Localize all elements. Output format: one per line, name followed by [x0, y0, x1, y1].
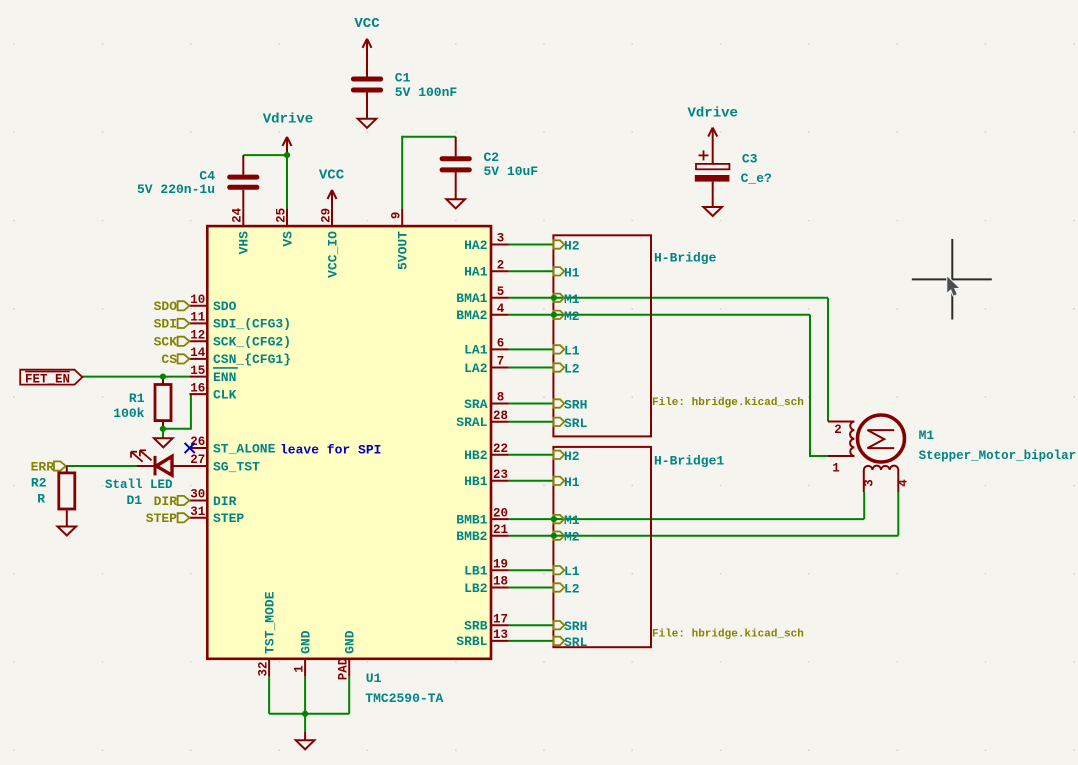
svg-text:20: 20	[493, 506, 508, 520]
svg-text:DIR: DIR	[154, 494, 178, 509]
svg-text:100k: 100k	[113, 406, 144, 421]
svg-text:C3: C3	[742, 151, 758, 166]
svg-text:SRA: SRA	[464, 397, 488, 412]
svg-text:SG_TST: SG_TST	[213, 459, 260, 474]
svg-text:5V 100nF: 5V 100nF	[395, 85, 458, 100]
svg-text:Stepper_Motor_bipolar: Stepper_Motor_bipolar	[919, 449, 1077, 463]
svg-text:3: 3	[863, 479, 877, 487]
svg-text:GND: GND	[343, 630, 358, 654]
svg-text:9: 9	[390, 212, 404, 220]
svg-text:VS: VS	[280, 231, 295, 247]
svg-text:M1: M1	[564, 513, 580, 528]
svg-text:5: 5	[497, 285, 505, 299]
svg-text:leave for SPI: leave for SPI	[280, 442, 381, 457]
svg-text:H2: H2	[564, 239, 580, 254]
svg-text:File: hbridge.kicad_sch: File: hbridge.kicad_sch	[652, 397, 804, 409]
svg-text:4: 4	[497, 302, 505, 316]
svg-text:HB2: HB2	[464, 448, 488, 463]
svg-text:18: 18	[493, 575, 508, 589]
svg-text:LB2: LB2	[464, 581, 488, 596]
svg-text:SRL: SRL	[564, 635, 588, 650]
svg-text:21: 21	[493, 523, 508, 537]
svg-text:ENN: ENN	[213, 370, 236, 385]
svg-text:7: 7	[497, 355, 505, 369]
svg-text:LB1: LB1	[464, 564, 488, 579]
svg-text:SDO: SDO	[213, 299, 237, 314]
svg-text:4: 4	[897, 479, 911, 487]
svg-text:5V 10uF: 5V 10uF	[484, 164, 539, 179]
svg-text:VCC_IO: VCC_IO	[325, 231, 340, 278]
svg-text:Stall LED: Stall LED	[105, 478, 173, 492]
svg-text:SRB: SRB	[464, 619, 488, 634]
svg-text:CS: CS	[161, 352, 177, 367]
svg-text:VCC: VCC	[319, 168, 345, 184]
svg-text:SRL: SRL	[564, 416, 588, 431]
svg-text:13: 13	[493, 628, 508, 642]
svg-text:ST_ALONE: ST_ALONE	[213, 441, 276, 456]
svg-text:23: 23	[493, 468, 508, 482]
svg-text:14: 14	[190, 346, 206, 360]
svg-text:HA2: HA2	[464, 238, 488, 253]
svg-text:SCK: SCK	[154, 335, 178, 350]
svg-text:TMC2590-TA: TMC2590-TA	[365, 691, 443, 706]
svg-text:H1: H1	[564, 475, 580, 490]
svg-text:L2: L2	[564, 582, 580, 597]
svg-text:SRH: SRH	[564, 398, 587, 413]
svg-text:BMA2: BMA2	[456, 308, 487, 323]
svg-text:BMA1: BMA1	[456, 291, 487, 306]
svg-text:28: 28	[493, 409, 508, 423]
svg-text:CSN_{CFG1}: CSN_{CFG1}	[213, 352, 291, 367]
svg-text:SRAL: SRAL	[456, 415, 487, 430]
svg-text:L1: L1	[564, 564, 580, 579]
svg-text:6: 6	[497, 337, 505, 351]
svg-text:Vdrive: Vdrive	[687, 105, 737, 121]
svg-text:2: 2	[497, 259, 505, 273]
svg-text:LA2: LA2	[464, 361, 488, 376]
svg-text:PAD: PAD	[336, 657, 350, 680]
svg-text:BMB1: BMB1	[456, 512, 487, 527]
svg-text:STEP: STEP	[213, 511, 244, 526]
svg-text:SRH: SRH	[564, 619, 587, 634]
svg-text:26: 26	[190, 435, 205, 449]
svg-text:22: 22	[493, 442, 508, 456]
svg-text:H1: H1	[564, 265, 580, 280]
svg-text:1: 1	[292, 665, 306, 673]
svg-text:5VOUT: 5VOUT	[396, 231, 411, 270]
svg-text:24: 24	[231, 207, 245, 223]
svg-text:M2: M2	[564, 309, 580, 324]
svg-text:U1: U1	[366, 671, 382, 686]
svg-text:SRBL: SRBL	[456, 634, 487, 649]
svg-text:H-Bridge1: H-Bridge1	[654, 453, 724, 468]
svg-text:SDO: SDO	[154, 299, 178, 314]
svg-text:H-Bridge: H-Bridge	[654, 251, 717, 266]
svg-text:5V 220n-1u: 5V 220n-1u	[137, 182, 215, 197]
svg-text:M1: M1	[919, 428, 935, 443]
svg-text:VHS: VHS	[237, 231, 252, 255]
svg-text:VCC: VCC	[354, 16, 380, 32]
svg-text:ERR: ERR	[31, 459, 55, 474]
svg-text:TST_MODE: TST_MODE	[263, 591, 278, 654]
svg-text:15: 15	[190, 364, 205, 378]
svg-text:BMB2: BMB2	[456, 529, 487, 544]
svg-text:L1: L1	[564, 343, 580, 358]
svg-text:1: 1	[832, 462, 840, 476]
svg-text:19: 19	[493, 557, 508, 571]
svg-text:SCK_(CFG2): SCK_(CFG2)	[213, 335, 291, 350]
svg-text:29: 29	[319, 208, 333, 223]
svg-text:LA1: LA1	[464, 343, 488, 358]
svg-text:HB1: HB1	[464, 474, 488, 489]
svg-text:R1: R1	[129, 391, 145, 406]
svg-text:C1: C1	[395, 71, 411, 86]
svg-text:C_e?: C_e?	[741, 171, 772, 186]
svg-text:DIR: DIR	[213, 494, 237, 509]
svg-text:25: 25	[274, 208, 288, 223]
svg-text:Vdrive: Vdrive	[263, 111, 313, 127]
svg-text:M1: M1	[564, 292, 580, 307]
svg-text:32: 32	[256, 661, 270, 676]
svg-text:8: 8	[497, 391, 505, 405]
svg-text:2: 2	[834, 423, 842, 437]
svg-text:30: 30	[190, 488, 205, 502]
svg-text:D1: D1	[127, 493, 143, 508]
svg-text:SDI_(CFG3): SDI_(CFG3)	[213, 317, 291, 332]
svg-text:R: R	[37, 492, 45, 507]
svg-text:16: 16	[190, 381, 205, 395]
svg-text:L2: L2	[564, 362, 580, 377]
svg-text:31: 31	[190, 505, 205, 519]
svg-text:FET_EN: FET_EN	[25, 372, 70, 386]
svg-text:R2: R2	[31, 475, 47, 490]
svg-text:10: 10	[190, 293, 205, 307]
svg-text:C2: C2	[484, 150, 500, 165]
svg-text:12: 12	[190, 329, 205, 343]
svg-text:M2: M2	[564, 530, 580, 545]
svg-text:17: 17	[493, 612, 508, 626]
svg-text:11: 11	[190, 311, 205, 325]
svg-text:3: 3	[497, 232, 505, 246]
svg-text:CLK: CLK	[213, 387, 237, 402]
svg-text:STEP: STEP	[146, 511, 177, 526]
svg-text:H2: H2	[564, 449, 580, 464]
svg-text:SDI: SDI	[154, 317, 177, 332]
svg-text:File: hbridge.kicad_sch: File: hbridge.kicad_sch	[652, 629, 804, 641]
svg-text:GND: GND	[299, 630, 314, 654]
svg-text:HA1: HA1	[464, 265, 488, 280]
